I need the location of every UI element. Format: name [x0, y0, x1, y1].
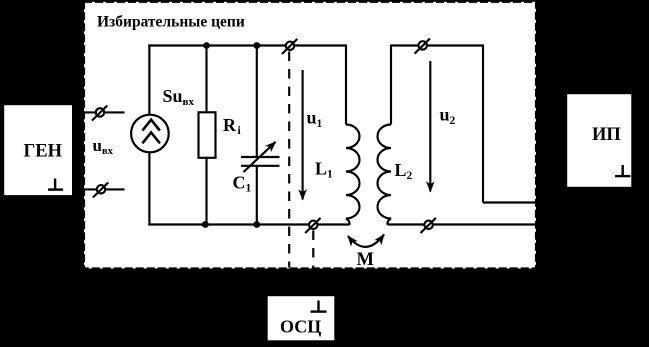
- svg-text:ОСЦ: ОСЦ: [280, 317, 321, 337]
- svg-text:Избирательные цепи: Избирательные цепи: [97, 14, 245, 31]
- dashed probe line from top terminal: [288, 52, 290, 268]
- ground symbol in OSC: [311, 301, 327, 312]
- junction dot bottom Ri: [202, 221, 209, 228]
- arrow u1: [302, 70, 304, 200]
- wire: L1 top stub: [345, 45, 347, 125]
- current source chevron upper: [142, 120, 160, 131]
- wire: L2 top stub: [390, 45, 392, 125]
- wire: secondary right branch: [482, 45, 484, 203]
- dashed probe line from bottom terminal: [312, 231, 314, 268]
- terminal input bottom: [93, 182, 108, 197]
- svg-text:ГЕН: ГЕН: [24, 142, 63, 162]
- terminal primary bottom: [305, 218, 320, 233]
- terminal input top: [92, 106, 107, 121]
- current source chevron lower: [142, 132, 160, 143]
- wire: R_i branch lower: [205, 158, 207, 225]
- capacitor C1 bottom plate: [241, 165, 280, 167]
- inductor L2: [378, 125, 392, 225]
- mutual coupling M arc: [348, 235, 384, 247]
- current source U1 circle: [131, 115, 169, 153]
- inductor L1: [346, 125, 360, 225]
- wire: input terminal stub top: [84, 111, 125, 113]
- junction dot bottom C1: [253, 221, 260, 228]
- wire: R_i branch upper: [205, 46, 207, 114]
- wire: C1 branch lower: [256, 166, 258, 225]
- wire: secondary top rail: [391, 44, 484, 46]
- svg-text:ИП: ИП: [592, 125, 621, 145]
- junction dot top C1: [253, 42, 260, 49]
- capacitor C1 top plate: [241, 156, 280, 158]
- resistor Ri: [199, 112, 216, 158]
- measuring device IP box: [566, 93, 633, 188]
- terminal secondary top: [415, 39, 430, 54]
- svg-text:M: M: [357, 250, 374, 270]
- oscilloscope OSC box: [267, 295, 336, 342]
- capacitor C1 variable arrow: [244, 142, 276, 172]
- ground symbol in GEN: [48, 179, 63, 190]
- wire: secondary output to IP: [483, 201, 536, 203]
- dashed selective-circuits box: [84, 2, 536, 269]
- wire: input terminal stub bottom: [84, 188, 125, 190]
- wire: C1 branch upper: [256, 46, 258, 158]
- terminal primary top: [282, 39, 297, 54]
- ground symbol in IP: [615, 165, 631, 176]
- wire: source branch lower: [148, 152, 150, 226]
- generator GEN box: [3, 104, 73, 196]
- terminal secondary bottom: [421, 218, 436, 233]
- wire: source branch upper: [148, 45, 150, 116]
- wire: primary top rail: [148, 44, 346, 46]
- wire: primary bottom rail: [148, 223, 349, 225]
- wire: secondary bottom rail: [388, 223, 536, 225]
- arrow u2: [429, 61, 431, 192]
- junction dot top Ri: [203, 42, 210, 49]
